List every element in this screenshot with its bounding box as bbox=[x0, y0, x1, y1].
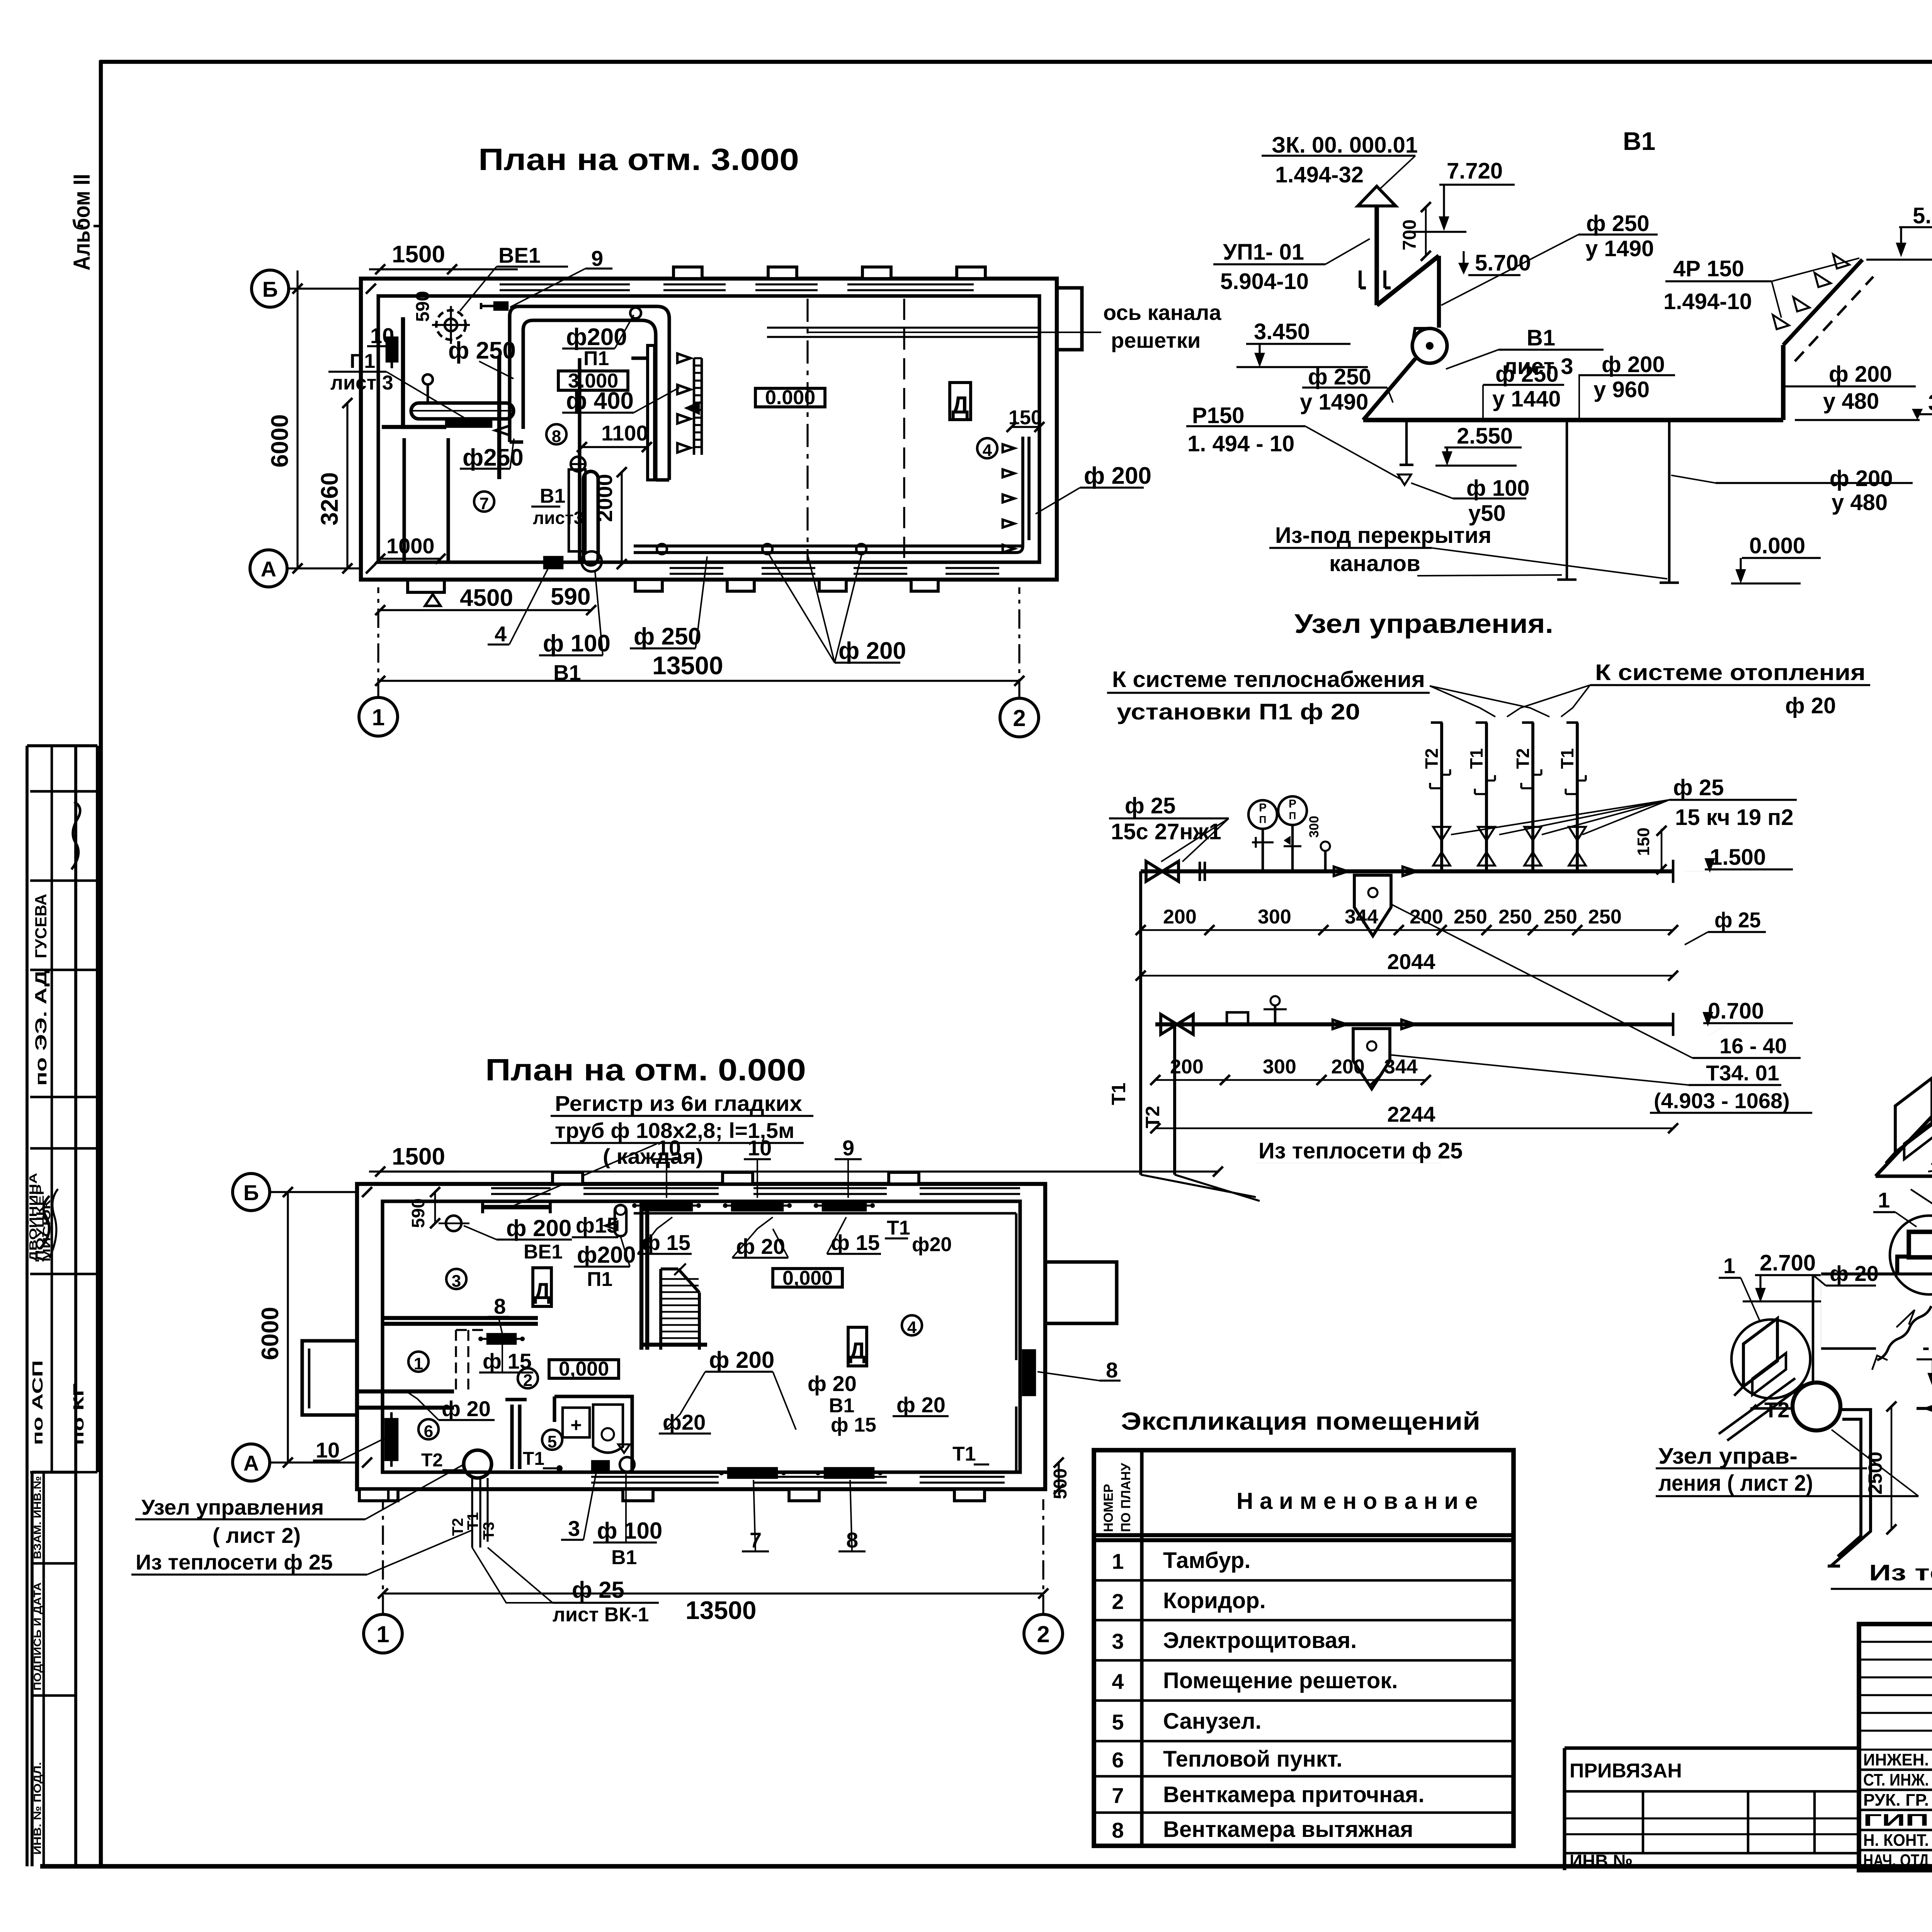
svg-text:ления ( лист 2): ления ( лист 2) bbox=[1658, 1471, 1813, 1496]
plan1 wall stub bbox=[631, 356, 646, 360]
plan1 label f200 bott bbox=[769, 554, 906, 664]
svg-text:ф 100: ф 100 bbox=[597, 1518, 662, 1544]
plan1 duct arrows right bbox=[1003, 444, 1014, 553]
plan1 dim 6000 bbox=[267, 270, 303, 573]
heat T2 node bbox=[1748, 1383, 1840, 1430]
uzel reducer upper l bbox=[1334, 867, 1348, 876]
svg-text:Р: Р bbox=[1259, 801, 1267, 814]
plan2 porch bbox=[359, 1489, 398, 1501]
plan2 wall room3 bbox=[383, 1318, 538, 1324]
svg-text:1.500: 1.500 bbox=[1710, 845, 1766, 870]
svg-text:4500: 4500 bbox=[460, 585, 513, 611]
svg-text:4: 4 bbox=[495, 622, 507, 646]
plan1 dim 1500 bbox=[369, 241, 518, 274]
svg-text:ВЗАМ. ИНВ.№: ВЗАМ. ИНВ.№ bbox=[32, 1476, 43, 1559]
stamp text po kg bbox=[71, 1383, 87, 1445]
stamp text po ee ad bbox=[32, 970, 50, 1086]
svg-text:ПРИВЯЗАН: ПРИВЯЗАН bbox=[1570, 1760, 1682, 1782]
expl header naim bbox=[1236, 1488, 1478, 1514]
plan2 label 9 bbox=[835, 1136, 862, 1198]
svg-text:План на отм. 0.000: План на отм. 0.000 bbox=[485, 1053, 806, 1087]
svg-text:7: 7 bbox=[1112, 1783, 1124, 1808]
plan2 label f15 b bbox=[827, 1217, 881, 1255]
uzel pipe upper bbox=[1141, 860, 1673, 883]
svg-text:по ЭЭ. АД: по ЭЭ. АД bbox=[32, 970, 50, 1086]
B1 label f100 50 bbox=[1411, 476, 1530, 526]
plan2 label f200 r bbox=[665, 1347, 796, 1430]
plan1 label f250 b bbox=[460, 439, 524, 471]
plan1 device 9 bbox=[481, 303, 507, 310]
plan2 dim590 bbox=[408, 1187, 440, 1228]
svg-text:8: 8 bbox=[1106, 1358, 1118, 1382]
uzel filter lower bbox=[1353, 1029, 1390, 1089]
svg-text:0,000: 0,000 bbox=[782, 1267, 833, 1289]
svg-text:Т1: Т1 bbox=[523, 1449, 544, 1469]
expl col divider bbox=[1140, 1450, 1143, 1846]
uzel dim 2044 bbox=[1136, 949, 1678, 981]
svg-text:1: 1 bbox=[414, 1354, 423, 1373]
plan2 bottom windows bbox=[591, 1477, 1005, 1483]
svg-text:13500: 13500 bbox=[652, 651, 723, 680]
tb staff row 3 bbox=[1863, 1811, 1932, 1830]
plan1 label B1 list3 bbox=[531, 485, 583, 528]
plan1 label f200 right bbox=[1036, 463, 1151, 514]
heat uzel label bbox=[1656, 1430, 1918, 1496]
plan2 label 8 right bbox=[1037, 1358, 1121, 1382]
stamp lower grid bbox=[32, 1472, 76, 1866]
svg-text:Экспликация помещений: Экспликация помещений bbox=[1121, 1407, 1480, 1435]
plan2 label f200 BE1 bbox=[464, 1215, 572, 1263]
stamp signature 1 bbox=[71, 802, 80, 869]
uzel flag 0.700 bbox=[1703, 998, 1793, 1024]
svg-text:6000: 6000 bbox=[267, 414, 293, 468]
expl header line bbox=[1094, 1535, 1514, 1540]
plan1 dim 3260 bbox=[316, 398, 352, 573]
plan1 B1 unit bbox=[569, 457, 602, 571]
svg-text:Т2: Т2 bbox=[1513, 748, 1533, 769]
plan1 BE1 fan bbox=[432, 306, 470, 344]
plan2 radiator t1 bbox=[632, 1201, 701, 1210]
plan2 radiator b1 bbox=[719, 1468, 786, 1478]
plan1 label f400 bbox=[562, 388, 679, 414]
svg-text:10: 10 bbox=[657, 1136, 681, 1160]
uzel label f25 kch bbox=[1451, 775, 1797, 835]
heat line 3044 bbox=[1876, 1174, 1932, 1178]
plan2 right bay bbox=[1045, 1262, 1117, 1323]
stamp text inv bbox=[32, 1762, 43, 1855]
svg-text:К системе отопления: К системе отопления bbox=[1595, 660, 1866, 685]
plan2 radiator t3 bbox=[814, 1201, 875, 1210]
plan1 bottom pilasters bbox=[635, 580, 938, 591]
svg-text:3.450: 3.450 bbox=[1254, 319, 1310, 344]
plan2 wall san bbox=[554, 1396, 632, 1472]
svg-text:Из теплосети: Из теплосети bbox=[1869, 1560, 1932, 1585]
tb inv text bbox=[1570, 1851, 1633, 1871]
svg-text:у 480: у 480 bbox=[1832, 490, 1888, 515]
plan2 label f20 r4 bbox=[659, 1410, 711, 1434]
plan2 label 10 left bbox=[313, 1437, 386, 1462]
heat dim 2500 bbox=[1864, 1401, 1896, 1534]
svg-text:ф200: ф200 bbox=[577, 1242, 636, 1268]
plan1 label 10 bbox=[367, 323, 397, 348]
plan2 label D2 bbox=[848, 1327, 867, 1366]
svg-text:15 кч 19 п2: 15 кч 19 п2 bbox=[1675, 805, 1794, 830]
uzel riser taps bbox=[1430, 769, 1586, 794]
svg-text:6: 6 bbox=[424, 1422, 433, 1441]
expl title bbox=[1121, 1407, 1480, 1435]
plan2 title bbox=[485, 1053, 806, 1087]
plan2 dim 500 bbox=[1050, 1458, 1071, 1499]
plan1 dim 2000 bbox=[592, 467, 627, 569]
B1 fan bbox=[1412, 328, 1447, 363]
svg-text:2.700: 2.700 bbox=[1760, 1250, 1816, 1276]
svg-text:ГУСЕВА: ГУСЕВА bbox=[32, 894, 50, 958]
plan1 mark 3.000 bbox=[558, 370, 628, 392]
svg-text:ф 20: ф 20 bbox=[442, 1396, 491, 1421]
plan2 label 7 bott bbox=[742, 1480, 769, 1552]
B1 label R150 bbox=[1186, 403, 1403, 480]
svg-text:250: 250 bbox=[1544, 906, 1577, 928]
plan2 heater left bbox=[386, 1412, 397, 1467]
B1 zig bbox=[1377, 256, 1439, 305]
plan2 label T1 mid bbox=[523, 1449, 563, 1471]
svg-text:7: 7 bbox=[480, 494, 489, 513]
plan2 radiator m bbox=[478, 1334, 525, 1344]
plan2 wall stair bottom bbox=[641, 1343, 707, 1347]
plan2 staircase bbox=[661, 1264, 699, 1350]
svg-text:ПОДПИСЬ И ДАТА: ПОДПИСЬ И ДАТА bbox=[32, 1582, 43, 1690]
svg-text:ГИП: ГИП bbox=[1863, 1811, 1929, 1830]
svg-text:2500: 2500 bbox=[1864, 1452, 1886, 1495]
plan2 label 10b bbox=[744, 1136, 772, 1198]
svg-text:ф 200: ф 200 bbox=[1602, 352, 1665, 377]
svg-text:3260: 3260 bbox=[316, 472, 343, 526]
plan1 axis B bbox=[252, 270, 376, 307]
svg-text:Т1: Т1 bbox=[1108, 1083, 1129, 1105]
plan1 duct P1 right drop bbox=[656, 319, 669, 480]
plan2 radiator b2 bbox=[816, 1468, 883, 1478]
svg-text:ф 250: ф 250 bbox=[634, 623, 701, 650]
plan2 room6 circ bbox=[418, 1419, 439, 1441]
uzel riser valves bbox=[1433, 827, 1586, 866]
plan1 label VE1 bbox=[460, 243, 568, 311]
svg-text:решетки: решетки bbox=[1111, 328, 1201, 352]
plan2 room5 circ bbox=[542, 1430, 562, 1451]
svg-text:300: 300 bbox=[1307, 816, 1321, 838]
svg-text:П1: П1 bbox=[583, 347, 609, 370]
svg-text:( лист 2): ( лист 2) bbox=[213, 1523, 301, 1548]
plan2 label D1 bbox=[533, 1268, 551, 1306]
svg-text:ф 25: ф 25 bbox=[572, 1577, 624, 1603]
svg-text:1100: 1100 bbox=[601, 421, 648, 445]
svg-text:6000: 6000 bbox=[257, 1307, 284, 1360]
plan1 duct arrow bbox=[495, 426, 509, 435]
svg-text:Из теплосети ф 25: Из теплосети ф 25 bbox=[136, 1550, 333, 1574]
svg-text:200: 200 bbox=[1331, 1056, 1365, 1078]
plan1 room4 circ bbox=[977, 438, 997, 460]
svg-text:ф 15: ф 15 bbox=[641, 1230, 690, 1255]
uzel risers bbox=[1422, 723, 1578, 871]
plan2 axis A bbox=[233, 1444, 372, 1481]
plan1 duct P1 left drop bbox=[510, 316, 523, 442]
svg-text:Помещение решеток.: Помещение решеток. bbox=[1163, 1668, 1398, 1693]
svg-text:1: 1 bbox=[1723, 1253, 1735, 1278]
svg-text:ф20: ф20 bbox=[663, 1410, 706, 1434]
tb staff row 0 bbox=[1863, 1750, 1932, 1769]
heat T1 bottom bbox=[1917, 1407, 1932, 1410]
plan2 wc radiator bbox=[592, 1444, 634, 1472]
B1 riser right bbox=[1781, 345, 1786, 420]
svg-text:ВЕ1: ВЕ1 bbox=[524, 1241, 563, 1263]
plan2 room3 circ bbox=[446, 1269, 466, 1291]
svg-text:у 960: у 960 bbox=[1594, 377, 1650, 402]
uzel flange 1 bbox=[1200, 862, 1205, 881]
svg-text:0.000: 0.000 bbox=[765, 386, 815, 409]
plan1 register bbox=[411, 403, 514, 427]
svg-text:Узел управления.: Узел управления. bbox=[1294, 609, 1553, 639]
svg-text:3.450: 3.450 bbox=[1928, 390, 1932, 415]
stamp names bbox=[27, 1173, 53, 1262]
svg-text:Тамбур.: Тамбур. bbox=[1163, 1548, 1250, 1573]
svg-text:Т34. 01: Т34. 01 bbox=[1706, 1061, 1779, 1085]
svg-text:2: 2 bbox=[1013, 705, 1026, 731]
plan1 heater b bbox=[539, 557, 568, 568]
uzel gauge 2 bbox=[1278, 796, 1307, 871]
expl row 8 bbox=[1112, 1817, 1413, 1842]
svg-text:2000: 2000 bbox=[592, 474, 617, 522]
plan2 label 8 mid bbox=[488, 1294, 509, 1334]
svg-text:каналов: каналов bbox=[1329, 551, 1420, 576]
expl row 3 bbox=[1112, 1628, 1357, 1653]
plan1 axis A bbox=[250, 550, 376, 587]
B1 label izpod bbox=[1269, 523, 1667, 579]
expl header nomer bbox=[1101, 1463, 1133, 1532]
plan2 room4 circ bbox=[902, 1315, 922, 1337]
heat rad B bbox=[1897, 1232, 1932, 1274]
svg-text:1500: 1500 bbox=[392, 241, 445, 268]
svg-text:250: 250 bbox=[1454, 906, 1487, 928]
svg-text:УП1- 01: УП1- 01 bbox=[1223, 240, 1304, 265]
svg-text:В1: В1 bbox=[1527, 325, 1555, 350]
svg-text:установки П1 ф 20: установки П1 ф 20 bbox=[1117, 699, 1360, 724]
expl row 7 bbox=[1112, 1782, 1424, 1808]
heat wavy bbox=[1872, 1306, 1931, 1370]
plan1 label f100 bbox=[539, 572, 611, 657]
svg-text:8: 8 bbox=[1112, 1818, 1124, 1842]
svg-text:Электрощитовая.: Электрощитовая. bbox=[1163, 1628, 1357, 1653]
svg-text:2.550: 2.550 bbox=[1457, 423, 1513, 449]
svg-text:лист3: лист3 bbox=[533, 508, 583, 528]
svg-text:ф 15: ф 15 bbox=[831, 1414, 876, 1436]
svg-text:ф 200: ф 200 bbox=[1830, 466, 1893, 491]
uzel label k sisteme tepl bbox=[1107, 667, 1430, 724]
B1 label f250 1490 b bbox=[1300, 364, 1393, 415]
svg-text:Н а и м е н о в а н и е: Н а и м е н о в а н и е bbox=[1236, 1488, 1478, 1514]
plan2 label f20 a bbox=[732, 1217, 788, 1259]
heat line 3297 bbox=[1821, 1176, 1932, 1274]
plan1 wall v1 bbox=[497, 356, 501, 479]
plan2 inner wall bbox=[383, 1201, 1020, 1472]
plan1 top windows bbox=[500, 284, 974, 290]
svg-text:ВЕ1: ВЕ1 bbox=[498, 243, 541, 267]
svg-text:Т1: Т1 bbox=[1466, 748, 1486, 769]
sheet border left bbox=[99, 60, 103, 1866]
svg-text:3: 3 bbox=[1112, 1629, 1124, 1653]
plan2 dashed duct bbox=[456, 1330, 487, 1391]
stamp text po asp bbox=[30, 1360, 46, 1445]
plan1 fat arrow bbox=[687, 403, 699, 413]
svg-text:ф 25: ф 25 bbox=[1125, 793, 1175, 818]
plan2 bottom pilasters bbox=[623, 1489, 985, 1501]
uzel pipe lower bbox=[1155, 1013, 1673, 1036]
svg-text:лист ВК-1: лист ВК-1 bbox=[553, 1604, 649, 1626]
heat label f20 c bbox=[1911, 1183, 1932, 1207]
svg-text:5: 5 bbox=[1112, 1710, 1124, 1734]
uzel vert T2 bbox=[1142, 1024, 1175, 1175]
plan2 label uzel bbox=[135, 1464, 464, 1548]
heat pointer 1 c bbox=[1719, 1253, 1760, 1321]
stamp text gusева bbox=[32, 894, 50, 958]
svg-text:2: 2 bbox=[1112, 1589, 1124, 1614]
plan1 right bay bbox=[1057, 288, 1082, 350]
svg-text:лист 3: лист 3 bbox=[330, 372, 393, 394]
svg-text:В1: В1 bbox=[1623, 127, 1655, 155]
svg-text:( каждая): ( каждая) bbox=[603, 1144, 703, 1168]
plan1 dim 150 bbox=[1007, 406, 1044, 432]
svg-text:ф 200: ф 200 bbox=[506, 1215, 571, 1241]
plan2 dim 6000 bbox=[257, 1187, 293, 1468]
svg-text:Б: Б bbox=[243, 1180, 259, 1205]
svg-text:10: 10 bbox=[748, 1136, 772, 1160]
uzel flag 1.500 bbox=[1685, 845, 1793, 871]
svg-text:4: 4 bbox=[907, 1318, 917, 1337]
plan2 mark 0.000 a bbox=[549, 1358, 619, 1380]
uzel reducer lower l bbox=[1333, 1020, 1347, 1029]
svg-text:590: 590 bbox=[408, 1198, 428, 1228]
svg-text:200: 200 bbox=[1163, 906, 1197, 928]
tb priv text bbox=[1570, 1760, 1682, 1782]
expl row 5 bbox=[1112, 1709, 1261, 1734]
svg-text:В1: В1 bbox=[540, 485, 565, 507]
svg-text:П1: П1 bbox=[587, 1268, 612, 1291]
uzel valve lower bbox=[1161, 1014, 1193, 1034]
plan1 grille arrows bbox=[677, 354, 690, 452]
svg-text:ф200: ф200 bbox=[566, 324, 627, 350]
svg-text:Д: Д bbox=[849, 1338, 866, 1364]
B1 label f200 960 bbox=[1578, 352, 1675, 420]
svg-text:500: 500 bbox=[1050, 1468, 1071, 1499]
B1 dim 700 bbox=[1400, 202, 1431, 261]
B1 cowl device bbox=[1360, 270, 1391, 288]
svg-text:1: 1 bbox=[376, 1621, 389, 1647]
svg-text:План на отм. 3.000: План на отм. 3.000 bbox=[478, 142, 799, 177]
B1 flag 3.450 left bbox=[1236, 319, 1368, 367]
svg-text:Д: Д bbox=[951, 391, 969, 419]
svg-text:Узел управления: Узел управления bbox=[141, 1495, 324, 1519]
svg-text:ф 15: ф 15 bbox=[483, 1349, 532, 1373]
plan2 label 8 bott bbox=[838, 1480, 866, 1552]
svg-text:10: 10 bbox=[370, 323, 394, 348]
plan1 porch bbox=[408, 580, 444, 606]
plan2 toilet bbox=[593, 1405, 623, 1453]
svg-text:7.720: 7.720 bbox=[1447, 158, 1503, 184]
plan1 duct P1 horizontal bbox=[510, 306, 669, 335]
svg-text:ИНЖЕН.: ИНЖЕН. bbox=[1863, 1750, 1929, 1769]
svg-text:ф 25: ф 25 bbox=[1714, 908, 1761, 932]
tb staff grid bbox=[1859, 1624, 1932, 1870]
svg-text:6: 6 bbox=[1112, 1748, 1124, 1772]
svg-text:0.000: 0.000 bbox=[1749, 533, 1805, 558]
svg-text:300: 300 bbox=[1263, 1056, 1296, 1078]
plan1 label f250 bott bbox=[630, 556, 707, 650]
plan2 label f20 r3 bbox=[893, 1393, 949, 1417]
plan2 wall T bbox=[505, 1400, 527, 1469]
plan1 label 4 bbox=[488, 567, 549, 646]
svg-text:ф 200: ф 200 bbox=[1829, 362, 1892, 387]
B1 stub valve bbox=[1398, 420, 1413, 485]
svg-text:+: + bbox=[570, 1414, 582, 1436]
plan2 label B1 bbox=[611, 1546, 637, 1569]
svg-text:СТ. ИНЖ.: СТ. ИНЖ. bbox=[1863, 1770, 1929, 1789]
plan2 wall stair left bbox=[641, 1201, 647, 1350]
svg-text:А: А bbox=[261, 557, 276, 581]
svg-text:ПО ПЛАНУ: ПО ПЛАНУ bbox=[1119, 1463, 1133, 1532]
plan1 label f200 P1 bbox=[562, 315, 634, 370]
svg-text:ф20: ф20 bbox=[912, 1233, 952, 1256]
B1 duct vertical bbox=[1437, 256, 1441, 328]
svg-text:Коридор.: Коридор. bbox=[1163, 1588, 1266, 1613]
plan2 label f15 a bbox=[638, 1217, 692, 1255]
uzel lower fittings bbox=[1227, 996, 1287, 1024]
svg-text:ф 20: ф 20 bbox=[1830, 1261, 1879, 1286]
svg-text:10: 10 bbox=[316, 1438, 340, 1462]
B1 flag 2.550 bbox=[1435, 423, 1522, 466]
svg-text:ф 250: ф 250 bbox=[448, 337, 516, 364]
plan2 BE1 bbox=[439, 1216, 469, 1231]
uzel label 16-40 bbox=[1390, 904, 1812, 1113]
svg-text:13500: 13500 bbox=[685, 1596, 757, 1624]
svg-text:3: 3 bbox=[452, 1272, 461, 1291]
plan1 dim 590 v bbox=[413, 291, 433, 322]
B1 label ZK bbox=[1262, 133, 1418, 189]
stamp text vzam bbox=[32, 1476, 43, 1559]
svg-text:Р: Р bbox=[1289, 798, 1296, 810]
svg-text:ф 200: ф 200 bbox=[709, 1347, 774, 1373]
plan2 top windows bbox=[491, 1188, 1020, 1194]
svg-text:Венткамера приточная.: Венткамера приточная. bbox=[1163, 1782, 1425, 1807]
plan2 label f15 mid bbox=[479, 1345, 533, 1373]
svg-text:ф 20: ф 20 bbox=[808, 1371, 857, 1396]
heat valve bl bbox=[1926, 1402, 1932, 1415]
svg-text:1500: 1500 bbox=[392, 1143, 445, 1170]
plan2 room2 circ bbox=[518, 1368, 538, 1390]
svg-text:0,000: 0,000 bbox=[559, 1358, 609, 1380]
svg-text:ф 400: ф 400 bbox=[566, 388, 634, 414]
heat rad slant a bbox=[1886, 1078, 1932, 1163]
plan2 axis 2 bbox=[1024, 1499, 1063, 1653]
svg-text:у 1490: у 1490 bbox=[1300, 389, 1368, 415]
B1 vert drop 1 bbox=[1557, 420, 1577, 580]
svg-text:250: 250 bbox=[1588, 906, 1622, 928]
svg-text:ось канала: ось канала bbox=[1103, 300, 1221, 325]
plan1 bottom windows bbox=[670, 568, 999, 574]
svg-text:3: 3 bbox=[568, 1516, 580, 1541]
tb priv frame bbox=[1565, 1748, 1859, 1870]
svg-text:ф 25: ф 25 bbox=[1673, 775, 1724, 800]
svg-text:150: 150 bbox=[1634, 828, 1653, 856]
plan1 inner wall bbox=[378, 296, 1039, 562]
B1 heading bbox=[1623, 127, 1655, 155]
